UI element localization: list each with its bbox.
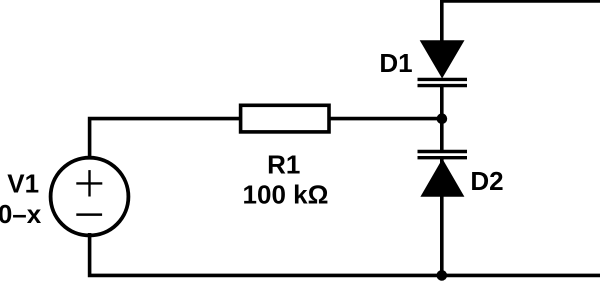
wire V1 to bottom rail [90,233,600,275]
diode D1 [418,40,468,85]
wire D1 cathode to node A [440,86,444,152]
svg-text:100 kΩ: 100 kΩ [243,180,329,210]
node B junction dot (bottom) [437,270,448,281]
diode D2 [418,152,468,197]
wire top rail to D1 anode [442,1,600,43]
svg-text:D2: D2 [470,166,503,196]
wire V1 to R1 [90,119,241,158]
svg-text:V1: V1 [7,168,39,198]
voltage source V1 [51,158,129,236]
svg-text:D1: D1 [379,48,412,78]
node A junction dot (mid) [437,113,448,124]
wire R1 to node A [329,117,442,121]
resistor R1 [241,105,329,132]
wire D2 anode to bottom rail [440,158,444,276]
svg-text:R1: R1 [267,150,300,180]
svg-text:0–x: 0–x [0,199,42,229]
